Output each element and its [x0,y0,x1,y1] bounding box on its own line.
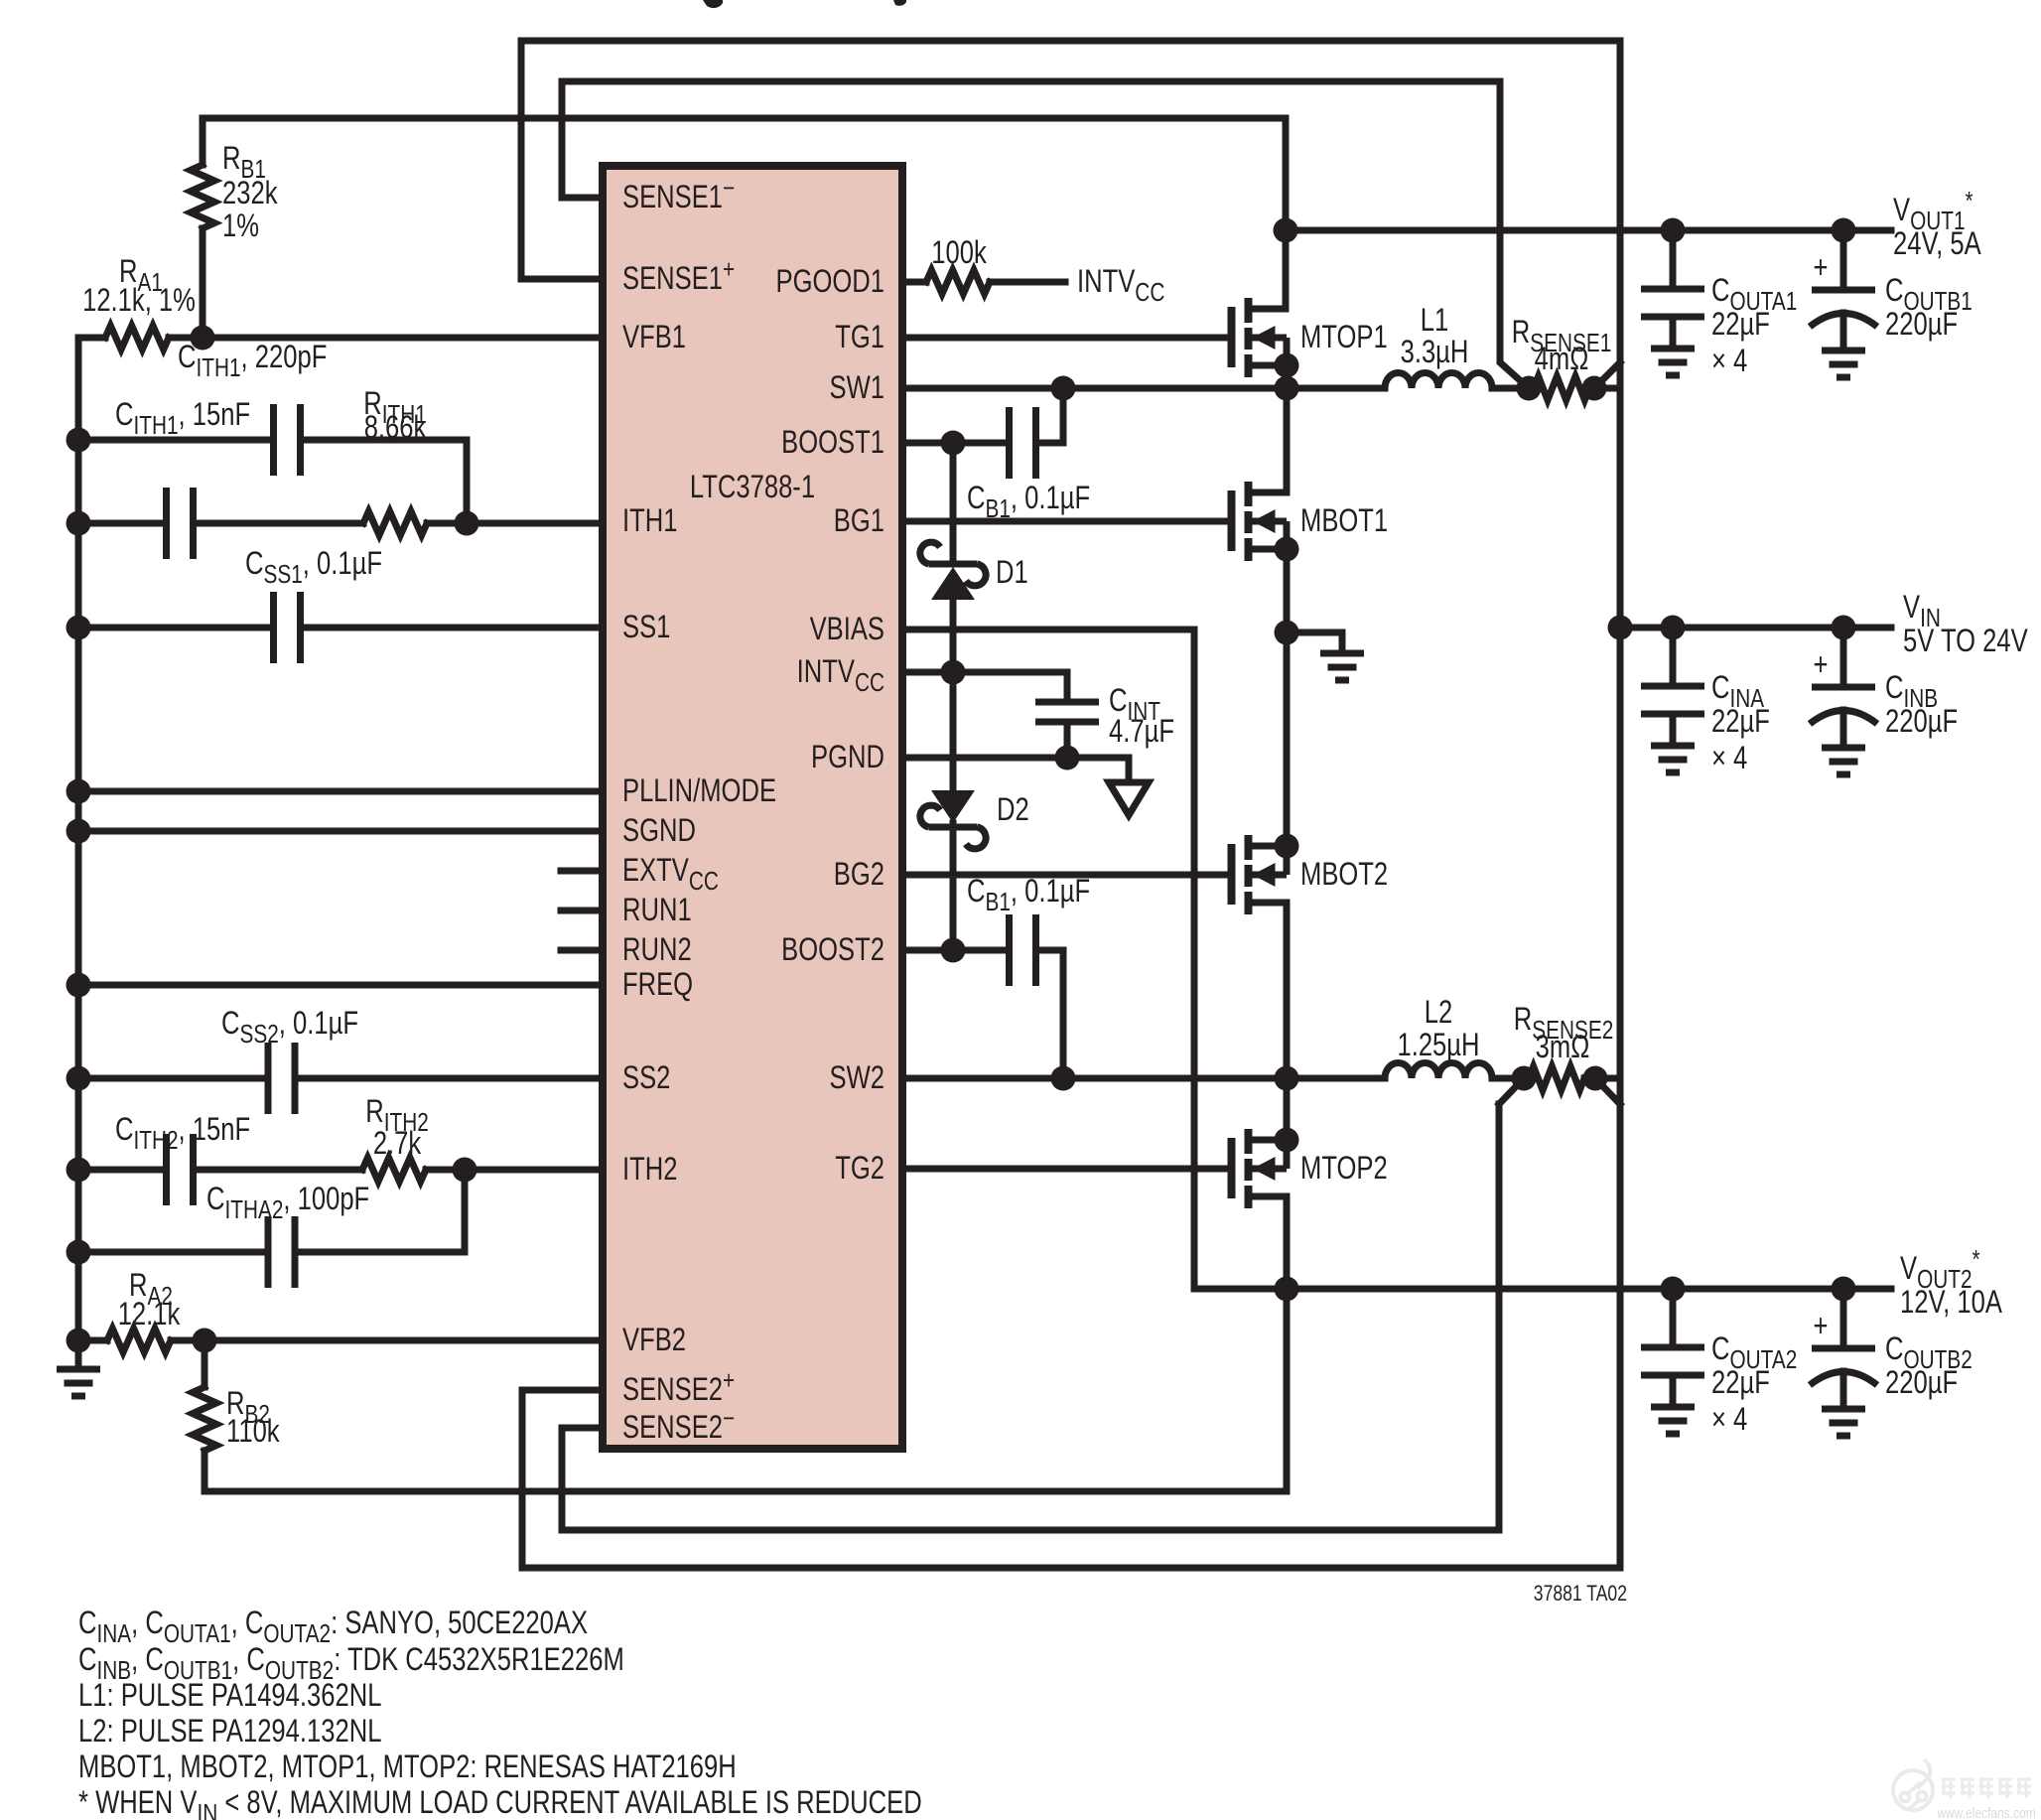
svg-text:MBOT2: MBOT2 [1300,857,1388,892]
svg-text:BOOST1: BOOST1 [781,425,884,460]
svg-text:220µF: 220µF [1885,307,1958,342]
svg-text:D2: D2 [997,792,1029,827]
wire CINB lower stem [1840,710,1847,748]
ground (PGND open triangle) [1109,782,1149,815]
wire left common bus x=79 [75,338,82,1340]
wire CINT to PGND [1064,722,1071,758]
svg-text:MBOT1: MBOT1 [1300,503,1388,538]
svg-text:× 4: × 4 [1711,344,1747,378]
svg-text:D1: D1 [996,555,1028,590]
wire L2 to RSENSE2 [1492,1075,1524,1082]
svg-text:+: + [1814,250,1829,285]
svg-text:1%: 1% [222,209,259,243]
svg-text:220µF: 220µF [1885,1365,1958,1400]
wire RB2 to VOUT2 [204,1289,1287,1491]
svg-text:220µF: 220µF [1885,704,1958,739]
ground (CINB) [1814,647,1829,682]
resistor RITH1 8.66k [363,511,427,535]
svg-text:LTC3788-1: LTC3788-1 [690,470,815,504]
svg-text:1.25µH: 1.25µH [1397,1028,1479,1062]
wire MBOT1 source / ground rail [1284,549,1291,846]
node COUTA2 tap [1661,1277,1686,1302]
wire MTOP1 drain riser [1283,230,1290,309]
node VFB2/RB2 junction [193,1329,217,1353]
svg-text:SW2: SW2 [830,1060,884,1095]
wire COUTA2 stem [1670,1289,1677,1347]
wire SENSE1+ / VIN kelvin rail [521,41,1620,1104]
node bus tap SGND [67,819,91,844]
node INTVCC (PGOOD pullup) [1077,264,1164,306]
node VFB1/RB1 junction [191,326,215,350]
wire bus to CSS2 [78,1075,268,1082]
svg-text:22µF: 22µF [1711,704,1770,739]
wire MBOT2 drain to SW2 [1284,903,1291,1078]
svg-text:5V TO 24V: 5V TO 24V [1903,624,2028,658]
pin SS2 [622,1060,670,1095]
wire PGOOD1 stub [906,279,926,286]
node CINB tap [1832,616,1856,640]
node SW2 node [1275,1066,1299,1091]
wire bus to CSS1 [78,625,274,631]
node BOOST2/D2 tap [941,938,966,963]
svg-text:3.3µH: 3.3µH [1401,335,1469,369]
svg-text:2.7k: 2.7k [373,1126,422,1161]
wire BOOST2 to CB1' [906,947,1010,954]
wire SGND to bus [78,828,603,835]
inductor L1 3.3uH [1385,372,1492,388]
wire SW2 rail [906,1075,1385,1082]
node RSENSE1 right terminal [1582,376,1607,401]
transistor MBOT2 [1232,834,1299,915]
pin ITH2 [622,1152,677,1187]
svg-text:232k: 232k [222,176,278,210]
capacitor COUTB2 (electrolytic) [1810,1289,1877,1436]
pin PLLIN/MODE [622,773,776,808]
pin SENSE2- [622,1404,735,1446]
ground (COUTB1) [1814,250,1829,285]
svg-text:24V, 5A: 24V, 5A [1893,226,1981,261]
transistor MTOP2 [1232,1128,1299,1209]
wire EXTVCC stub [561,868,603,875]
svg-text:RUN2: RUN2 [622,932,692,967]
wire RA2 to VFB2 pin [171,1337,603,1344]
pin VFB2 [622,1323,686,1357]
node VIN [1903,590,1941,631]
svg-text:PLLIN/MODE: PLLIN/MODE [622,773,776,808]
svg-text:L2: PULSE PA1294.132NL: L2: PULSE PA1294.132NL [78,1714,381,1749]
wire RITH1 to ITH1 pin [427,520,603,527]
svg-text:100k: 100k [931,235,987,270]
watermark CJK text (abstract) [1942,1779,2031,1798]
pin ITH1 [622,503,677,538]
wire bus to CITHA2 [78,1249,268,1256]
wire CITHA2 to ITH2 node [295,1170,465,1252]
node PGND tap [1275,621,1299,645]
svg-text:12.1k: 12.1k [118,1297,181,1331]
wire SENSE2- kelvin [562,1104,1499,1530]
inductor L2 1.25uH [1385,1063,1492,1079]
pin FREQ [622,967,693,1002]
transistor MTOP1 [1232,298,1299,378]
svg-text:L2: L2 [1425,995,1452,1030]
capacitor COUTA2 (ceramic bank) [1641,1289,1704,1434]
wire RSENSE2 right stub [1584,1075,1620,1082]
wire SW1 to MBOT1 drain [1284,388,1291,492]
svg-text:SS2: SS2 [622,1060,670,1095]
svg-text:RUN1: RUN1 [622,893,692,927]
svg-text:12.1k, 1%: 12.1k, 1% [82,283,196,318]
pin BOOST2 [781,932,884,967]
svg-text:MTOP1: MTOP1 [1300,320,1388,354]
node RSENSE1 left terminal [1517,376,1542,401]
svg-text:4.7µF: 4.7µF [1109,714,1174,749]
wire CSS2 to SS2 pin [295,1075,603,1082]
svg-text:SW1: SW1 [830,370,884,405]
ground (COUTA2) [1711,1331,1797,1373]
pin SENSE1- [622,174,735,215]
svg-text:SENSE1−: SENSE1− [622,174,735,215]
svg-text:SENSE1+: SENSE1+ [622,255,735,297]
svg-text:4mΩ: 4mΩ [1535,342,1589,376]
IC U1 LTC3788-1 (dual boost controller) [603,166,902,1449]
pin SENSE1+ [622,255,735,297]
wire CINB stem [1840,628,1847,687]
wire RA1 to VFB1 pin [169,335,603,342]
node RSENSE2 left terminal [1512,1066,1537,1091]
wire TG1 to MTOP1 gate [906,335,1227,342]
pin RUN1 [622,893,692,927]
ground (CINA) [1711,670,1764,712]
node INTVCC/D-chain tap [941,660,966,685]
svg-text:FREQ: FREQ [622,967,693,1002]
pin SW1 [830,370,884,405]
wire CITH1a to ITH1 node [301,440,468,523]
svg-text:+: + [1814,1309,1829,1343]
wire COUTB1 lower stem [1840,313,1847,350]
capacitor CINT 4.7uF [1035,702,1099,722]
node COUTB1 tap [1832,218,1856,243]
wire bus to CITH1a [78,437,274,444]
svg-text:MTOP2: MTOP2 [1300,1151,1388,1186]
pin EXTVCC [622,853,719,895]
svg-text:12V, 10A: 12V, 10A [1900,1285,2003,1320]
wire CINA stem [1670,628,1677,686]
svg-text:BOOST2: BOOST2 [781,932,884,967]
wire PLLIN/MODE to bus [78,788,603,795]
node VOUT1 [1893,187,1973,235]
node bus tap ITH1 [67,511,91,536]
svg-text:PGND: PGND [811,740,884,774]
node bus tap FREQ [67,973,91,998]
node RSENSE2 right terminal [1583,1066,1608,1091]
wire bus to ground [75,1340,82,1369]
svg-text:ITH2: ITH2 [622,1152,677,1187]
wire RSENSE1 right kelvin diagonal [1594,362,1620,388]
pin TG1 [835,320,884,354]
wire D1 anode to INTVCC [950,600,957,672]
wire bus to CITH2 [78,1167,167,1174]
pin BG1 [834,503,884,538]
wire PGND to signal ground [906,758,1129,782]
wire RITH2 to ITH2 pin [426,1167,603,1174]
pin VBIAS [810,612,884,646]
svg-text:VFB2: VFB2 [622,1323,686,1357]
pin INTVCC [797,654,884,696]
wire to INTVCC label [990,279,1065,286]
svg-text:3mΩ: 3mΩ [1536,1030,1590,1064]
wire BOOST1 to CB1 [906,440,1010,447]
svg-text:22µF: 22µF [1711,1365,1770,1400]
resistor RSENSE2 3mOhm [1529,1066,1584,1090]
wire CINA lower stem [1670,714,1677,746]
node RITH2/CITHA2 junction [453,1158,477,1183]
wire bus to RA1 [78,335,105,342]
wire SENSE1- kelvin rail [562,81,1529,388]
svg-text:+: + [1814,647,1829,682]
wire RB2 bottom lead [202,1451,208,1491]
svg-text:www.elecfans.com: www.elecfans.com [1936,1805,2035,1820]
wire MTOP1 source to SW1 [1284,365,1291,388]
wire BG1 to MBOT1 gate [906,518,1227,525]
wire RB1 bottom lead [200,228,206,338]
wire CITH2 to RITH2 [194,1167,363,1174]
svg-text:L1: L1 [1421,303,1448,338]
wire INTVCC to D2 anode [950,672,957,789]
pin SENSE2+ [622,1366,735,1408]
wire FREQ to bus [78,982,603,989]
node VOUT2 [1900,1245,1980,1294]
capacitor COUTA1 (ceramic bank) [1641,230,1704,375]
notes block [78,1606,588,1647]
node COUTA1 tap [1661,218,1686,243]
svg-text:TG2: TG2 [835,1151,884,1186]
node RITH1/CITH1a junction [455,511,479,536]
wire BG2 to MBOT2 gate [906,872,1227,879]
wire COUTB1 stem [1840,230,1847,290]
cropped title fragment (descender of y) [893,0,906,6]
wire COUTB2 stem [1840,1289,1847,1348]
svg-text:110k: 110k [226,1414,280,1449]
node BOOST1/D1 tap [941,431,966,456]
diode D1 (Schottky) [920,542,986,600]
svg-text:L1: PULSE PA1494.362NL: L1: PULSE PA1494.362NL [78,1678,381,1713]
node bus tap ITH2 [67,1158,91,1183]
node bus tap PLLIN [67,779,91,804]
wire RB1 top lead [200,118,206,165]
svg-text:SENSE2−: SENSE2− [622,1404,735,1446]
wire RB2 top lead [202,1340,208,1387]
wire TG2 to MTOP2 gate [906,1166,1227,1173]
wire COUTB2 lower stem [1840,1371,1847,1409]
pin SGND [622,813,696,848]
node bus tap CITHA2 [67,1240,91,1265]
capacitor CINA (ceramic bank) [1641,628,1704,772]
node CINA tap [1661,616,1686,640]
node CB1' bottom tap [1051,1066,1076,1091]
cropped title fragment (descender of g) [703,0,723,8]
wire COUTA1 stem [1670,230,1677,289]
pin TG2 [835,1151,884,1186]
node VIN junction [1608,616,1633,640]
capacitor CINB (electrolytic) [1810,628,1877,774]
svg-text:SGND: SGND [622,813,696,848]
node CINT/PGND junction [1055,746,1080,770]
wire RUN1 stub [561,908,603,914]
svg-text:BG2: BG2 [834,857,884,892]
resistor RSENSE1 4mOhm [1534,376,1589,400]
wire RSENSE2 left kelvin diagonal [1499,1078,1524,1104]
wire VOUT1 feedback to RB1 [203,118,1286,230]
wire CSS1 to SS1 pin [301,625,604,631]
pin RUN2 [622,932,692,967]
transistor MBOT1 [1232,482,1299,562]
wire MTOP2 drain to VOUT2 [1284,1196,1291,1289]
svg-text:TG1: TG1 [835,320,884,354]
ground (COUTA1) [1711,273,1797,315]
wire VIN rail [1620,625,1891,631]
svg-text:VBIAS: VBIAS [810,612,884,646]
wire RUN2 stub [561,947,603,954]
svg-text:× 4: × 4 [1711,1402,1747,1437]
wire bus to CITH1b [78,520,167,527]
node COUTB2 tap [1832,1277,1856,1302]
diode D2 (Schottky) [920,790,986,849]
wire CB1' to SW2 [1036,950,1064,1078]
svg-text:SENSE2+: SENSE2+ [622,1366,735,1408]
wire CITH1b to RITH1 [194,520,364,527]
watermark logo [1893,1759,1933,1810]
svg-text:ITH1: ITH1 [622,503,677,538]
wire BOOST1 to D1 cathode [950,443,957,564]
wire RSENSE2 right kelvin diagonal [1595,1078,1620,1104]
pin SS1 [622,610,670,644]
ground (COUTB2) [1814,1309,1829,1343]
node SW1 node [1275,376,1299,401]
svg-text:VFB1: VFB1 [622,320,686,354]
svg-text:SS1: SS1 [622,610,670,644]
node bus tap SS2 [67,1066,91,1091]
svg-text:8.66k: 8.66k [364,410,427,445]
svg-text:MBOT1, MBOT2, MTOP1, MTOP2: RE: MBOT1, MBOT2, MTOP1, MTOP2: RENESAS HAT2… [78,1750,737,1784]
wire SENSE2+ kelvin [522,1104,1620,1568]
svg-text:37881 TA02: 37881 TA02 [1534,1582,1627,1606]
pin PGND [811,740,884,774]
node VOUT2 node [1275,1277,1299,1302]
wire L1 to RSENSE1 [1492,385,1529,392]
wire SW1 rail [906,385,1385,392]
wire COUTA2 lower stem [1670,1375,1677,1407]
wire D2 cathode to BOOST2 [950,823,957,950]
svg-text:22µF: 22µF [1711,307,1770,342]
pin PGOOD1 [775,264,884,299]
node CB1 top tap [1051,376,1076,401]
pin BOOST1 [781,425,884,460]
svg-text:PGOOD1: PGOOD1 [775,264,884,299]
svg-text:BG1: BG1 [834,503,884,538]
svg-text:× 4: × 4 [1711,741,1747,775]
wire COUTA1 lower stem [1670,317,1677,349]
pin SW2 [830,1060,884,1095]
wire bus to RA2 [78,1337,107,1344]
wire CB1 to SW1 [1036,388,1064,443]
pin VFB1 [622,320,686,354]
capacitor COUTB1 (electrolytic) [1810,230,1877,377]
resistor RITH2 2.7k [362,1158,426,1182]
pin BG2 [834,857,884,892]
node bus tap SS1 [67,616,91,640]
wire VBIAS to VOUT2 rail [906,630,1891,1289]
node VOUT1/feedback junction [1274,218,1298,243]
wire INTVCC to CINT [906,672,1067,702]
wire VOUT1 rail [1286,227,1891,234]
node bus tap CITH1a [67,428,91,453]
node gnd tap [67,1329,91,1353]
wire to ground symbol [1287,632,1342,653]
wire RSENSE1 right stub [1589,385,1620,392]
wire SW2 to MTOP2 source [1284,1078,1291,1140]
